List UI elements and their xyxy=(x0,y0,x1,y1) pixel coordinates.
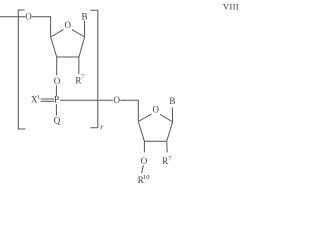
ring2 bond C3'-C4' xyxy=(138,122,144,142)
ring1 bond C4'-O xyxy=(51,30,64,37)
bond C1'-B ring1 xyxy=(84,21,86,37)
svg-text:Q: Q xyxy=(54,115,61,125)
bond C3'-O ring2 xyxy=(143,141,145,152)
bond O-R10 xyxy=(142,165,144,173)
wire backbone top-left xyxy=(0,16,25,18)
svg-text:O: O xyxy=(54,76,61,86)
double bond X1=P xyxy=(41,98,55,100)
svg-text:B: B xyxy=(169,96,175,106)
svg-text:10: 10 xyxy=(143,174,150,181)
bond C3'-O ring1 xyxy=(56,57,58,75)
svg-text:VIII: VIII xyxy=(223,1,239,11)
svg-text:O: O xyxy=(64,20,71,30)
ring1 bond C2'-C3' xyxy=(57,56,79,58)
bracket right xyxy=(90,10,98,127)
svg-text:P: P xyxy=(54,95,59,105)
svg-text:B: B xyxy=(81,12,87,22)
svg-text:O: O xyxy=(113,95,120,105)
bond C1'-B ring2 xyxy=(171,107,173,122)
wire O to C5' and down to C4' ring1 xyxy=(32,17,51,37)
ring1 bond C3'-C4' xyxy=(51,37,57,57)
svg-text:O: O xyxy=(25,12,32,22)
svg-text:1: 1 xyxy=(37,94,40,101)
ring2 bond O-C1' xyxy=(160,114,173,122)
bond C2'-R7 ring2 xyxy=(166,141,169,152)
svg-text:O: O xyxy=(141,156,148,166)
ring2 bond C2'-C3' xyxy=(144,140,166,142)
wire P-O backbone xyxy=(60,99,113,101)
ring1 bond C1'-C2' xyxy=(79,37,85,57)
bond P-Q xyxy=(55,104,57,115)
ring2 bond C4'-O xyxy=(138,114,151,121)
svg-text:R: R xyxy=(162,156,168,166)
bond O-P xyxy=(55,85,57,96)
bracket left xyxy=(18,10,25,129)
svg-text:7: 7 xyxy=(168,155,172,162)
ring2 bond C1'-C2' xyxy=(167,122,173,141)
svg-text:7: 7 xyxy=(81,74,85,81)
svg-text:r: r xyxy=(100,123,104,132)
wire O to C5' and down to C4' ring2 xyxy=(120,100,138,121)
svg-text:O: O xyxy=(153,105,160,115)
ring1 bond O-C1' xyxy=(72,30,85,37)
bond C2'-R7 ring1 xyxy=(78,57,80,74)
